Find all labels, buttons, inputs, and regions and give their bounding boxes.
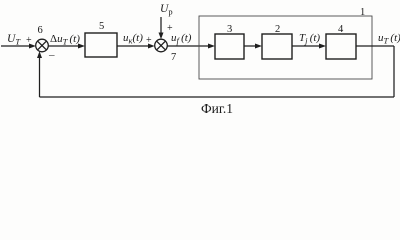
- wire: block 3 to block 2: [244, 44, 262, 49]
- svg-text:Uр: Uр: [160, 3, 173, 17]
- svg-text:3: 3: [227, 24, 232, 35]
- svg-text:1: 1: [360, 7, 365, 18]
- svg-text:uк(t): uк(t): [123, 32, 143, 46]
- wire: summer 6 to block 5: [48, 44, 85, 49]
- svg-text:uf (t): uf (t): [171, 32, 192, 46]
- wire: feedback up to summer 6: [37, 51, 42, 97]
- wire: block 5 to summer 7: [117, 44, 155, 49]
- svg-text:+: +: [26, 35, 32, 46]
- summing junction 7: [155, 39, 168, 52]
- svg-text:UT: UT: [7, 33, 21, 47]
- svg-text:–: –: [48, 49, 55, 61]
- block 3: [215, 34, 244, 59]
- svg-text:Фиг.1: Фиг.1: [201, 101, 233, 116]
- svg-text:ΔuT (t): ΔuT (t): [50, 33, 80, 47]
- svg-text:7: 7: [171, 52, 176, 63]
- svg-text:uT (t): uT (t): [378, 32, 400, 46]
- svg-text:Tj (t): Tj (t): [299, 32, 320, 46]
- wire: block 4 output u_T: [356, 45, 394, 47]
- wire: feedback down right side: [393, 46, 395, 97]
- block 5: [85, 33, 117, 57]
- wire: feedback bottom run: [40, 96, 395, 98]
- block 2: [262, 34, 292, 59]
- summing junction 6: [36, 39, 49, 52]
- block 4: [326, 34, 356, 59]
- wire: summer 7 to block 3: [167, 44, 215, 49]
- wire: block 2 to block 4: [292, 44, 326, 49]
- wire: U_p to summer 7: [159, 17, 164, 39]
- wire: input U_T to summer 6: [1, 44, 36, 49]
- object boundary 1: [199, 16, 372, 79]
- svg-text:6: 6: [38, 25, 43, 36]
- svg-text:5: 5: [99, 21, 104, 32]
- svg-text:+: +: [146, 35, 152, 46]
- svg-text:2: 2: [275, 24, 280, 35]
- svg-text:4: 4: [338, 24, 344, 35]
